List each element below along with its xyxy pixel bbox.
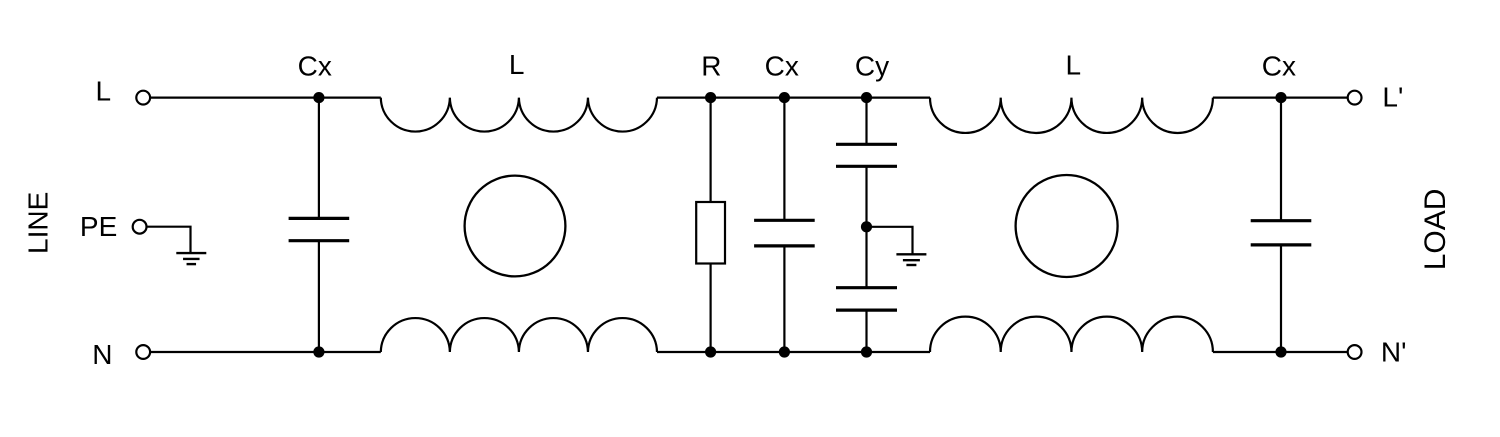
svg-text:N': N'	[1381, 336, 1407, 367]
svg-text:LINE: LINE	[22, 192, 53, 254]
svg-text:L': L'	[1382, 81, 1403, 112]
svg-text:Cx: Cx	[765, 50, 799, 81]
svg-text:Cx: Cx	[1262, 50, 1296, 81]
svg-text:L: L	[509, 49, 525, 80]
svg-text:L: L	[1066, 50, 1082, 81]
svg-text:R: R	[701, 50, 721, 81]
svg-text:LOAD: LOAD	[1419, 189, 1452, 271]
svg-text:L: L	[96, 76, 112, 107]
svg-text:Cx: Cx	[298, 51, 332, 82]
svg-text:PE: PE	[80, 211, 117, 242]
svg-text:Cy: Cy	[855, 50, 889, 81]
svg-text:N: N	[92, 339, 112, 370]
